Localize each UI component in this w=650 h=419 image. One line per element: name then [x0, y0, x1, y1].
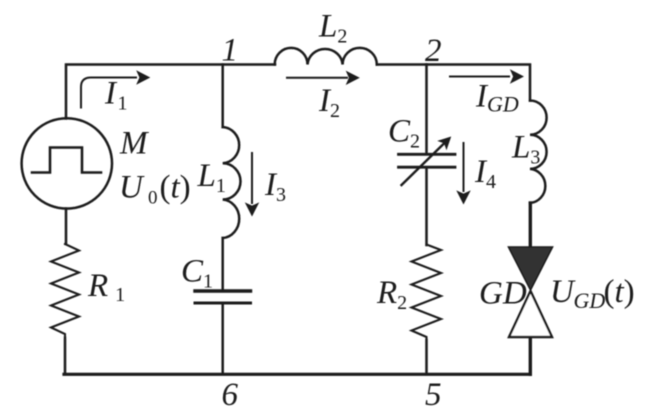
svg-text:C1: C1 [181, 254, 213, 293]
pulse symbol inside source [32, 148, 101, 173]
svg-text:C2: C2 [388, 114, 420, 153]
svg-text:2: 2 [425, 33, 442, 69]
resistor R2 [412, 245, 442, 341]
arrowhead I1 [136, 70, 150, 84]
svg-text:M: M [119, 126, 149, 162]
svg-text:I3: I3 [264, 167, 286, 206]
capacitor C2 top plate [399, 153, 456, 156]
svg-text:R1: R1 [87, 268, 125, 306]
inductor L1 [223, 127, 241, 238]
node 1 wire [221, 65, 224, 128]
resistor R1 [51, 244, 79, 338]
wire L3 to GD [529, 203, 532, 248]
svg-text:GD: GD [479, 276, 527, 312]
arrowhead IGD [510, 69, 524, 83]
arrowhead C2 variable [437, 137, 451, 151]
inductor L2 [275, 48, 377, 65]
wire top-right segment (node 2 to right branch) [427, 65, 531, 101]
svg-text:L2: L2 [318, 9, 347, 48]
svg-text:U0(t): U0(t) [119, 170, 191, 209]
node 2 wire [425, 65, 428, 154]
svg-text:6: 6 [222, 377, 239, 413]
inductor L3 [530, 101, 547, 204]
svg-text:UGD(t): UGD(t) [550, 274, 635, 313]
current arrow I3 shaft [251, 152, 253, 204]
svg-text:5: 5 [425, 377, 442, 413]
wire C2 to R2 [425, 168, 428, 245]
wire C1 to bottom (node 6) [221, 305, 224, 375]
current arrow I2 shaft [286, 77, 348, 79]
arrowhead I3 [245, 202, 259, 216]
wire top-left segment (source to node 1) [66, 65, 275, 119]
svg-text:R2: R2 [376, 275, 407, 314]
wire GD to bottom [529, 336, 532, 374]
wire R1 to bottom [64, 338, 67, 374]
svg-text:L1: L1 [197, 158, 226, 197]
capacitor C1 top plate [195, 289, 251, 292]
current arrow I1 (hook) [81, 78, 137, 109]
bottom wire [64, 373, 530, 376]
C2 variable arrow diagonal [402, 144, 445, 186]
current arrow I4 shaft [463, 142, 465, 192]
wire R2 to bottom (node 5) [425, 340, 428, 374]
gas discharge tube GD lower triangle (open) [509, 291, 552, 337]
gas discharge tube GD upper triangle (filled) [509, 247, 553, 290]
svg-text:I1: I1 [104, 76, 128, 115]
wire top segment L2 to node 2 [377, 63, 427, 66]
capacitor C1 bottom plate [195, 302, 251, 305]
arrowhead I4 [456, 190, 470, 204]
arrowhead I2 [346, 71, 360, 85]
svg-text:1: 1 [222, 33, 239, 69]
voltage source M circle [22, 118, 112, 208]
svg-text:I4: I4 [474, 154, 496, 193]
wire source to R1 [65, 209, 68, 245]
svg-text:I2: I2 [318, 83, 340, 122]
current arrow IGD shaft [449, 76, 510, 78]
capacitor C2 bottom plate [399, 166, 456, 169]
wire L1 to C1 [221, 238, 224, 289]
svg-text:IGD: IGD [475, 79, 519, 117]
